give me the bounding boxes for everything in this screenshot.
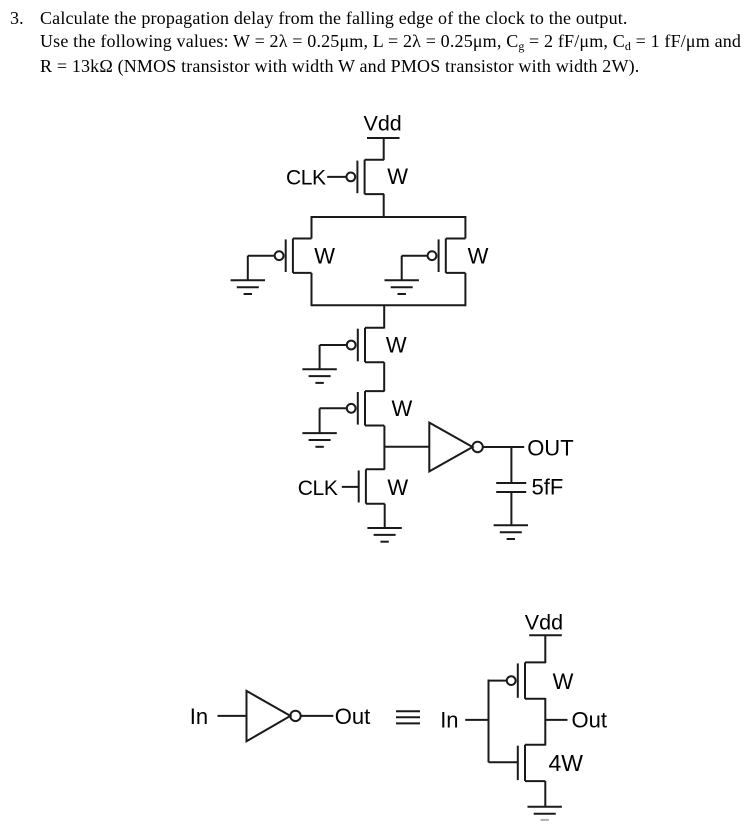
wire M6 source to ground [384, 504, 386, 529]
transistor M6 NMOS evaluate (gate CLK) [359, 469, 385, 503]
transistor M2 PMOS left of parallel pair [275, 239, 312, 273]
ground at M2 gate [231, 280, 265, 294]
wire M8 source to ground [544, 781, 546, 807]
wire In to inverter U2 input [218, 715, 248, 717]
wire top of parallel PMOS pair [312, 216, 466, 218]
value label W of M5 [392, 396, 413, 421]
inverter U2 symbol [247, 691, 301, 741]
problem statement paragraph [10, 7, 753, 78]
wire gate bus to M8 gate [489, 761, 518, 763]
ground at M5 gate [302, 433, 336, 447]
wire left edge upper (box to M2 drain) [311, 216, 313, 239]
value label W of M2 [314, 244, 335, 269]
net label Vdd (top circuit) [364, 112, 402, 136]
capacitor C1 5fF [496, 483, 526, 492]
wire In to gate bus [465, 719, 488, 721]
net label Out (CMOS inverter) [572, 708, 607, 733]
svg-text:W: W [314, 244, 335, 269]
wire left edge lower (M2 source to box) [311, 273, 313, 306]
ground at M6 source [367, 528, 401, 542]
net label In (CMOS inverter) [440, 708, 458, 733]
svg-text:W: W [387, 475, 408, 500]
wire right edge upper (box to M3 drain) [464, 216, 466, 239]
power rail Vdd (CMOS inverter) [529, 634, 562, 636]
svg-text:W: W [392, 396, 413, 421]
inverter U1 [429, 423, 483, 472]
ground at C1 [494, 525, 528, 539]
svg-text:W: W [386, 333, 407, 358]
wire U2 output to Out [301, 715, 334, 717]
wire CLK to M1 gate bubble [327, 176, 346, 178]
wire OUT node down to capacitor [510, 447, 512, 483]
wire gate bus vertical [488, 680, 490, 763]
power rail Vdd (top circuit) [367, 137, 400, 139]
transistor M4 PMOS series upper [347, 328, 384, 362]
net label CLK (M1 gate) [286, 166, 326, 189]
value label W of M3 [468, 244, 489, 269]
wire M5 gate to ground [320, 408, 347, 433]
wire Vdd rail to M1 drain [383, 138, 385, 160]
svg-text:W: W [468, 244, 489, 269]
wire M3 gate to ground [402, 256, 428, 281]
wire C1 bottom to ground [510, 492, 512, 525]
value label W of M7 [553, 669, 574, 694]
transistor M8 NMOS of CMOS inverter [518, 745, 546, 781]
wire M2 gate to ground [248, 256, 275, 281]
svg-text:In: In [440, 708, 458, 733]
svg-text:CLK: CLK [298, 477, 338, 500]
value label 5fF of C1 [532, 474, 564, 499]
wire U1 output to OUT [483, 446, 524, 448]
svg-text:Vdd: Vdd [364, 112, 402, 136]
transistor M3 PMOS right of parallel pair [428, 239, 466, 273]
svg-text:4W: 4W [549, 750, 584, 776]
ground at M8 source [528, 807, 562, 820]
wire gate bus to M7 gate bubble [489, 680, 507, 682]
wire CLK to M6 gate [342, 486, 359, 488]
wire right edge lower (M3 source to box) [464, 273, 466, 306]
svg-text:OUT: OUT [527, 435, 573, 460]
net label Vdd (CMOS inverter) [525, 610, 563, 634]
wire M7 source to Out node to M8 drain [544, 698, 546, 746]
svg-text:In: In [190, 704, 208, 729]
wire M1 source to parallel box top [383, 194, 385, 218]
transistor M7 PMOS of CMOS inverter [507, 662, 545, 698]
net label CLK (M6 gate) [298, 477, 338, 500]
svg-text:Out: Out [335, 704, 370, 729]
value label W of M6 [387, 475, 408, 500]
svg-text:W: W [387, 164, 408, 189]
net label In (symbol inverter) [190, 704, 208, 729]
svg-text:5fF: 5fF [532, 474, 564, 499]
ground at M4 gate [302, 369, 336, 383]
svg-text:W: W [553, 669, 574, 694]
net label OUT [527, 435, 573, 460]
wire node X to inverter input [384, 446, 429, 448]
wire Vdd rail to M7 drain [544, 635, 546, 663]
value label W of M1 [387, 164, 408, 189]
value label 4W of M8 [549, 750, 584, 776]
svg-text:Vdd: Vdd [525, 610, 563, 634]
wire M5 source to node X / M6 drain [383, 426, 385, 470]
net label Out (symbol inverter) [335, 704, 370, 729]
wire bottom of parallel PMOS pair [312, 304, 466, 306]
transistor M1 PMOS precharge (gate CLK) [346, 160, 384, 194]
wire M4 gate to ground [320, 345, 347, 369]
transistor M5 PMOS series lower [347, 391, 384, 425]
wire M4 source to M5 drain [383, 362, 385, 391]
svg-text:CLK: CLK [286, 166, 326, 189]
value label W of M4 [386, 333, 407, 358]
wire parallel box bottom to M4 drain [383, 305, 385, 328]
equivalence symbol &#8801; [396, 711, 420, 723]
wire Out node to Out label [545, 719, 567, 721]
ground at M3 gate [385, 280, 419, 294]
svg-text:Out: Out [572, 708, 607, 733]
